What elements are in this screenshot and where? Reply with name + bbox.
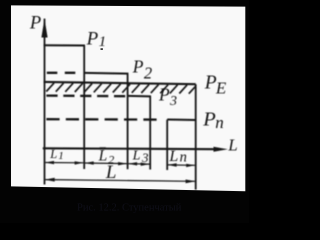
svg-text:3: 3 bbox=[169, 94, 177, 109]
svg-text:L: L bbox=[168, 148, 178, 165]
svg-text:P: P bbox=[29, 14, 41, 34]
svg-text:L: L bbox=[227, 136, 237, 155]
svg-text:P: P bbox=[86, 28, 99, 49]
svg-text:n: n bbox=[180, 150, 187, 166]
svg-text:E: E bbox=[215, 78, 227, 97]
svg-text:L: L bbox=[105, 162, 117, 183]
svg-text:P: P bbox=[204, 72, 217, 93]
svg-text:1: 1 bbox=[99, 34, 107, 50]
svg-text:2: 2 bbox=[144, 63, 152, 82]
svg-text:1: 1 bbox=[58, 150, 64, 162]
svg-text:3: 3 bbox=[141, 150, 149, 165]
svg-text:L: L bbox=[132, 148, 141, 163]
svg-text:Рис. 12.2. Ступенчатый: Рис. 12.2. Ступенчатый bbox=[77, 203, 182, 214]
svg-text:L: L bbox=[49, 147, 57, 161]
svg-text:n: n bbox=[215, 113, 224, 132]
svg-text:P: P bbox=[132, 56, 144, 76]
svg-text:P: P bbox=[202, 109, 216, 131]
svg-text:P: P bbox=[158, 85, 170, 105]
